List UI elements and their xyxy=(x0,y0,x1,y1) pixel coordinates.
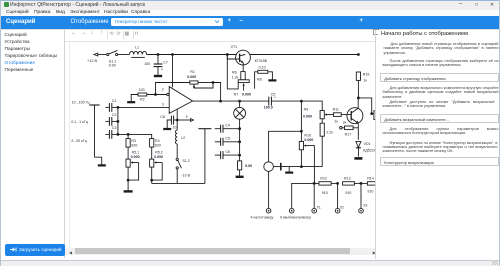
wire R16 wiper to bus xyxy=(313,146,315,184)
svg-text:0.1...1 кГц: 0.1...1 кГц xyxy=(71,120,88,124)
resistor R15 xyxy=(356,72,360,98)
svg-text:910: 910 xyxy=(345,191,351,195)
resistor R3 xyxy=(126,134,130,159)
ground xyxy=(285,172,293,174)
capacitor C5 series xyxy=(269,97,302,106)
svg-text:R17: R17 xyxy=(345,132,352,136)
svg-text:К частотомеру: К частотомеру xyxy=(251,215,274,219)
resistor R1 (trimmer) xyxy=(190,81,213,88)
node junction xyxy=(127,133,130,136)
wire X2 drop xyxy=(337,183,339,208)
node junction xyxy=(150,179,153,182)
svg-text:0.00: 0.00 xyxy=(245,164,252,168)
op-amp U1 xyxy=(167,87,193,114)
node junction xyxy=(117,133,120,136)
svg-text:L2: L2 xyxy=(181,136,185,140)
svg-text:1.2к: 1.2к xyxy=(232,75,239,79)
wire ground drop xyxy=(288,167,290,172)
svg-text:C3: C3 xyxy=(112,126,117,130)
node junction xyxy=(300,100,303,103)
switch S1.1 xyxy=(107,50,118,55)
resistor R10 xyxy=(320,119,324,167)
terminal K millivoltmetru xyxy=(289,208,294,213)
wire terminal2 riser xyxy=(292,183,315,208)
node junction xyxy=(171,53,174,56)
capacitor C8 xyxy=(167,116,177,129)
ground xyxy=(354,157,362,160)
svg-text:910: 910 xyxy=(367,190,373,194)
capacitor C1 xyxy=(105,103,118,112)
potentiometer R5.2 xyxy=(150,159,163,183)
svg-text:0.10: 0.10 xyxy=(259,66,266,70)
node junction xyxy=(238,154,241,157)
svg-text:R13: R13 xyxy=(344,176,351,180)
resistor R4 xyxy=(150,139,154,160)
ground xyxy=(268,79,276,81)
svg-text:0.000: 0.000 xyxy=(303,115,312,119)
wire X3 drop xyxy=(360,183,362,208)
svg-text:3: 3 xyxy=(162,103,164,107)
node junction xyxy=(238,140,241,143)
svg-text:C2: C2 xyxy=(112,113,117,117)
potentiometer R7 xyxy=(238,80,249,91)
node junction xyxy=(238,100,241,103)
svg-text:C5: C5 xyxy=(225,137,230,141)
node junction pin2 xyxy=(154,93,157,96)
svg-text:100: 100 xyxy=(139,88,145,92)
svg-text:R8: R8 xyxy=(257,77,262,81)
svg-text:C1: C1 xyxy=(112,99,117,103)
node junction a xyxy=(176,119,179,122)
node junction xyxy=(300,165,303,168)
node junction xyxy=(300,130,303,133)
lamp HL1 xyxy=(234,101,246,161)
resistor R13 xyxy=(343,182,361,185)
svg-text:R1: R1 xyxy=(190,70,195,74)
node junction xyxy=(336,182,339,185)
wire right edge xyxy=(358,98,371,114)
wire S1.2 down to bus xyxy=(176,169,178,183)
ground xyxy=(98,164,106,166)
node a arrow xyxy=(177,119,193,122)
terminal K chastotomeru xyxy=(266,208,271,213)
svg-text:R5.2: R5.2 xyxy=(155,151,163,155)
node junction xyxy=(117,120,120,123)
terminal X1 xyxy=(312,208,317,213)
wire feedback to output xyxy=(213,83,221,102)
svg-text:VT1: VT1 xyxy=(231,45,238,49)
svg-text:R12: R12 xyxy=(320,176,327,180)
node junction xyxy=(238,127,241,130)
svg-text:C7: C7 xyxy=(163,61,168,65)
node junction xyxy=(370,112,373,115)
svg-text:R15: R15 xyxy=(363,72,370,76)
wire VT1 base net down xyxy=(227,55,238,89)
svg-text:R2: R2 xyxy=(140,98,145,102)
svg-text:R4: R4 xyxy=(155,139,160,143)
terminal X3 xyxy=(359,208,364,213)
svg-text:1к: 1к xyxy=(363,78,367,82)
svg-text:R9: R9 xyxy=(304,107,309,111)
capacitor C2 xyxy=(105,117,118,126)
svg-text:0.000: 0.000 xyxy=(242,93,251,97)
svg-text:2.2к: 2.2к xyxy=(326,130,333,134)
svg-text:S1.2: S1.2 xyxy=(182,159,189,163)
svg-text:910: 910 xyxy=(322,191,328,195)
node junction xyxy=(357,53,360,56)
node junction xyxy=(219,100,222,103)
wire to ground xyxy=(239,170,241,176)
wire meter branch xyxy=(269,131,302,208)
svg-text:+: + xyxy=(274,94,277,99)
svg-text:620: 620 xyxy=(131,144,137,148)
resistor R14 xyxy=(361,182,376,185)
node junction xyxy=(357,97,360,100)
capacitor C5b xyxy=(215,138,240,146)
switch common bar xyxy=(89,105,99,157)
wire op-amp V+ xyxy=(172,55,174,88)
svg-text:0.000: 0.000 xyxy=(187,75,196,79)
wire output tap down xyxy=(176,109,178,120)
wire pin3 xyxy=(118,106,169,108)
capacitor C6 xyxy=(215,151,240,159)
svg-text:2...20 кГц: 2...20 кГц xyxy=(71,139,87,143)
resistor R18 xyxy=(238,161,242,170)
svg-text:VD1: VD1 xyxy=(364,142,371,146)
wire L2 to S1.2 xyxy=(176,144,178,158)
svg-text:К милливольтметру: К милливольтметру xyxy=(280,215,311,219)
wire X1 drop xyxy=(313,183,315,208)
svg-text:КД522А: КД522А xyxy=(363,148,376,152)
svg-text:1к: 1к xyxy=(334,119,338,123)
svg-text:100.0: 100.0 xyxy=(264,106,273,110)
node junction R1 out xyxy=(212,81,215,84)
inductor L2 xyxy=(175,130,177,144)
resistor R8 xyxy=(255,70,273,89)
svg-text:X1: X1 xyxy=(317,206,321,210)
svg-text:X2: X2 xyxy=(340,206,344,210)
node junction xyxy=(226,53,229,56)
svg-text:R6: R6 xyxy=(232,70,237,74)
transistor VT1 xyxy=(236,50,251,71)
wire top rail xyxy=(147,54,359,56)
svg-text:0.00: 0.00 xyxy=(109,64,116,68)
capacitor C3 xyxy=(105,130,118,139)
wire R3 R4 top xyxy=(118,134,152,138)
node junction xyxy=(313,182,316,185)
wire to L2 xyxy=(176,120,178,130)
capacitor C7 xyxy=(154,55,163,76)
ground wire xyxy=(281,166,322,168)
svg-text:C6: C6 xyxy=(225,150,230,154)
meter/jack xyxy=(264,162,281,172)
ground xyxy=(154,75,162,77)
wire output xyxy=(193,100,269,102)
svg-text:10: 10 xyxy=(173,126,177,130)
wire pin2 to R1 xyxy=(156,83,190,95)
transistor VT2 xyxy=(347,98,363,140)
potentiometer R9 xyxy=(320,111,333,119)
svg-text:0.000: 0.000 xyxy=(304,138,313,142)
svg-text:2к: 2к xyxy=(343,120,347,124)
ground xyxy=(124,190,133,192)
ground xyxy=(163,128,171,130)
svg-text:R7: R7 xyxy=(234,93,239,97)
node junction xyxy=(157,53,160,56)
potentiometer R5.1 xyxy=(126,159,139,191)
wire cap chain xyxy=(117,107,119,134)
svg-text:а: а xyxy=(186,115,188,119)
inductor L1 xyxy=(129,51,146,57)
svg-text:C4: C4 xyxy=(225,124,230,128)
svg-text:10...100 Гц: 10...100 Гц xyxy=(72,100,90,104)
potentiometer R16 xyxy=(299,142,314,167)
ground xyxy=(127,101,135,103)
wire VT1 base branch xyxy=(227,55,236,60)
svg-text:R14: R14 xyxy=(367,176,374,180)
svg-text:2: 2 xyxy=(162,87,164,91)
svg-text:КТ315Б: КТ315Б xyxy=(255,59,268,63)
resistor R2 xyxy=(131,93,167,101)
resistor R11 xyxy=(333,113,347,117)
resistor R6 xyxy=(241,72,245,80)
wire to R9 xyxy=(301,101,322,110)
svg-text:+: + xyxy=(161,67,164,72)
capacitor C4 xyxy=(215,125,240,133)
svg-text:+12 В: +12 В xyxy=(87,59,97,63)
potentiometer R17 xyxy=(340,126,359,130)
node junction xyxy=(360,182,363,185)
ground xyxy=(236,176,244,178)
wire down to R16 xyxy=(300,101,302,141)
wire to ground xyxy=(95,157,102,164)
svg-text:100: 100 xyxy=(144,62,150,66)
svg-text:-10 В: -10 В xyxy=(181,173,190,177)
svg-text:R16: R16 xyxy=(304,133,311,137)
node +12V arrow xyxy=(94,53,106,56)
node junction xyxy=(117,106,120,109)
switch S1.2 xyxy=(176,158,181,169)
terminal X2 xyxy=(335,208,340,213)
diode VD1 xyxy=(356,142,361,157)
svg-text:0.000: 0.000 xyxy=(131,155,140,159)
switch common bar 2 xyxy=(198,129,211,184)
svg-text:L1: L1 xyxy=(135,45,139,49)
svg-text:R5.1: R5.1 xyxy=(132,151,140,155)
resistor R12 xyxy=(314,182,337,185)
wire bottom bus left xyxy=(152,182,205,184)
resistor clipped right xyxy=(372,111,377,120)
svg-text:C8: C8 xyxy=(160,115,165,119)
svg-text:0.000: 0.000 xyxy=(154,155,163,159)
wire switch to L1 xyxy=(118,54,130,56)
svg-text:R3: R3 xyxy=(131,139,136,143)
node junction xyxy=(127,179,130,182)
svg-text:R11: R11 xyxy=(333,107,339,111)
svg-text:X3: X3 xyxy=(363,204,367,208)
svg-text:620: 620 xyxy=(155,144,161,148)
